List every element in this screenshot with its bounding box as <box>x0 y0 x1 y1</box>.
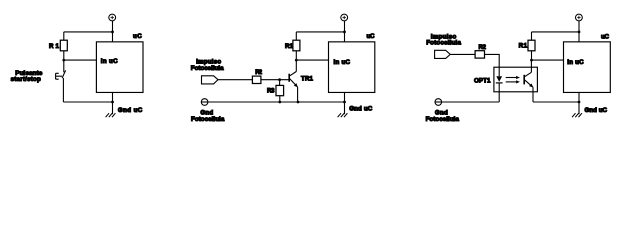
svg-text:R1: R1 <box>285 43 294 50</box>
power symbol +V C3 <box>576 14 583 21</box>
wire emitter to ground rail C3 <box>533 101 579 103</box>
light arrow 1 OPT1 <box>506 76 520 79</box>
svg-text:start/stop: start/stop <box>11 76 41 83</box>
svg-text:Fotocellula: Fotocellula <box>191 116 225 123</box>
svg-text:Gnd uC: Gnd uC <box>118 107 143 114</box>
node input tag Impulso C3 <box>435 50 451 58</box>
junction emitter ground C2 <box>297 101 300 104</box>
resistor R3 (circuit 2) <box>276 85 284 95</box>
wire power stem C1 <box>112 21 114 42</box>
wire tag to R2 C2 <box>218 79 252 81</box>
resistor R1 (circuit 3) <box>528 40 535 51</box>
wire power stem C2 <box>344 21 346 42</box>
ground C2 <box>338 113 348 117</box>
microcontroller box U3 C3 <box>564 42 611 93</box>
node Gnd Fotocellula C3 <box>435 99 442 106</box>
wire R1 top stub C1 <box>63 32 65 40</box>
svg-text:uC: uC <box>601 33 610 40</box>
wire R2 to LED anode C3 <box>485 54 500 76</box>
label Pulsante start/stop <box>11 70 43 83</box>
wire power stem C3 <box>578 21 580 42</box>
junction bottom C1 <box>111 101 114 104</box>
power symbol +V C2 <box>341 14 348 21</box>
wire ground stem C1 <box>112 92 114 114</box>
node input tag Impulso C2 <box>202 76 219 84</box>
svg-text:R1: R1 <box>49 43 60 50</box>
wire R1 bottom stub C3 <box>531 51 533 60</box>
svg-text:OPT1: OPT1 <box>474 78 491 85</box>
svg-text:uC: uC <box>133 33 142 40</box>
wire R1 bottom stub C1 <box>63 51 65 60</box>
svg-text:R3: R3 <box>267 88 275 95</box>
junction collector node C3 <box>530 59 533 62</box>
wire R1 top stub C3 <box>531 32 533 40</box>
junction bottom C3 <box>578 101 581 104</box>
junction top C3 <box>578 31 581 34</box>
junction input node C1 <box>62 59 65 62</box>
wire R1 top stub C2 <box>295 32 297 40</box>
pushbutton S1 start/stop <box>56 60 66 102</box>
label Impulso Fotocellula C3 <box>426 33 461 46</box>
svg-text:uC: uC <box>367 33 376 40</box>
svg-text:In uC: In uC <box>101 58 118 65</box>
svg-text:R1: R1 <box>519 43 528 50</box>
wire R1 bottom stub C2 <box>295 51 297 60</box>
svg-text:Fotocellula: Fotocellula <box>191 65 224 72</box>
light arrow 2 OPT1 <box>506 80 520 83</box>
label Gnd Fotocellula C3 <box>426 109 460 123</box>
optocoupler OPT1 box <box>494 67 538 92</box>
power symbol +V C1 <box>109 14 116 21</box>
wire to In uC pin C3 <box>532 59 564 61</box>
microcontroller box U2 C2 <box>329 42 375 93</box>
junction collector node C2 <box>295 59 298 62</box>
label Gnd Fotocellula C2 <box>191 109 225 123</box>
svg-text:Fotocellula: Fotocellula <box>426 40 461 47</box>
wire bottom rail C2 <box>208 101 345 103</box>
resistor R2 (circuit 3) <box>475 51 484 58</box>
transistor TR1 <box>289 60 298 102</box>
wire LED cathode to Gnd Fotocellula C3 <box>442 101 500 103</box>
wire R3 bottom stub C2 <box>279 96 281 102</box>
wire top rail C1 <box>64 31 113 33</box>
wire top rail C3 <box>532 31 580 33</box>
LED D1 inside optocoupler OPT1 <box>496 76 503 102</box>
svg-text:R2: R2 <box>255 69 262 76</box>
svg-text:Fotocellula: Fotocellula <box>426 116 460 123</box>
svg-text:In uC: In uC <box>334 59 351 66</box>
ground C3 <box>572 113 582 117</box>
wire to In uC pin C2 <box>296 59 328 61</box>
junction base node C2 <box>278 78 281 81</box>
wire tag to R2 C3 <box>450 53 475 55</box>
wire top rail C2 <box>296 31 344 33</box>
node Gnd Fotocellula C2 <box>201 99 208 106</box>
ground C1 <box>106 113 116 117</box>
wire ground stem C3 <box>578 92 580 114</box>
microcontroller box U1 C1 <box>96 42 143 93</box>
svg-text:R2: R2 <box>479 44 487 51</box>
wire R3 top stub C2 <box>279 80 281 86</box>
phototransistor inside OPT1 <box>524 60 533 102</box>
svg-text:TR1: TR1 <box>301 76 314 83</box>
svg-text:Gnd uC: Gnd uC <box>585 107 608 114</box>
resistor R2 (circuit 2) <box>252 76 261 83</box>
wire to In uC pin C1 <box>64 59 97 61</box>
junction R3 ground C2 <box>278 101 281 104</box>
resistor R1 (circuit 1) <box>60 40 67 51</box>
label Impulso Fotocellula C2 <box>191 58 224 71</box>
svg-text:Gnd uC: Gnd uC <box>349 106 373 113</box>
junction top C2 <box>343 31 346 34</box>
svg-text:In uC: In uC <box>567 59 584 66</box>
wire ground stem C2 <box>344 92 346 114</box>
junction bottom C2 <box>343 101 346 104</box>
junction top C1 <box>111 31 114 34</box>
wire bottom rail C1 <box>63 101 112 103</box>
resistor R1 (circuit 2) <box>293 40 300 51</box>
wire R2 to base node C2 <box>261 79 289 81</box>
